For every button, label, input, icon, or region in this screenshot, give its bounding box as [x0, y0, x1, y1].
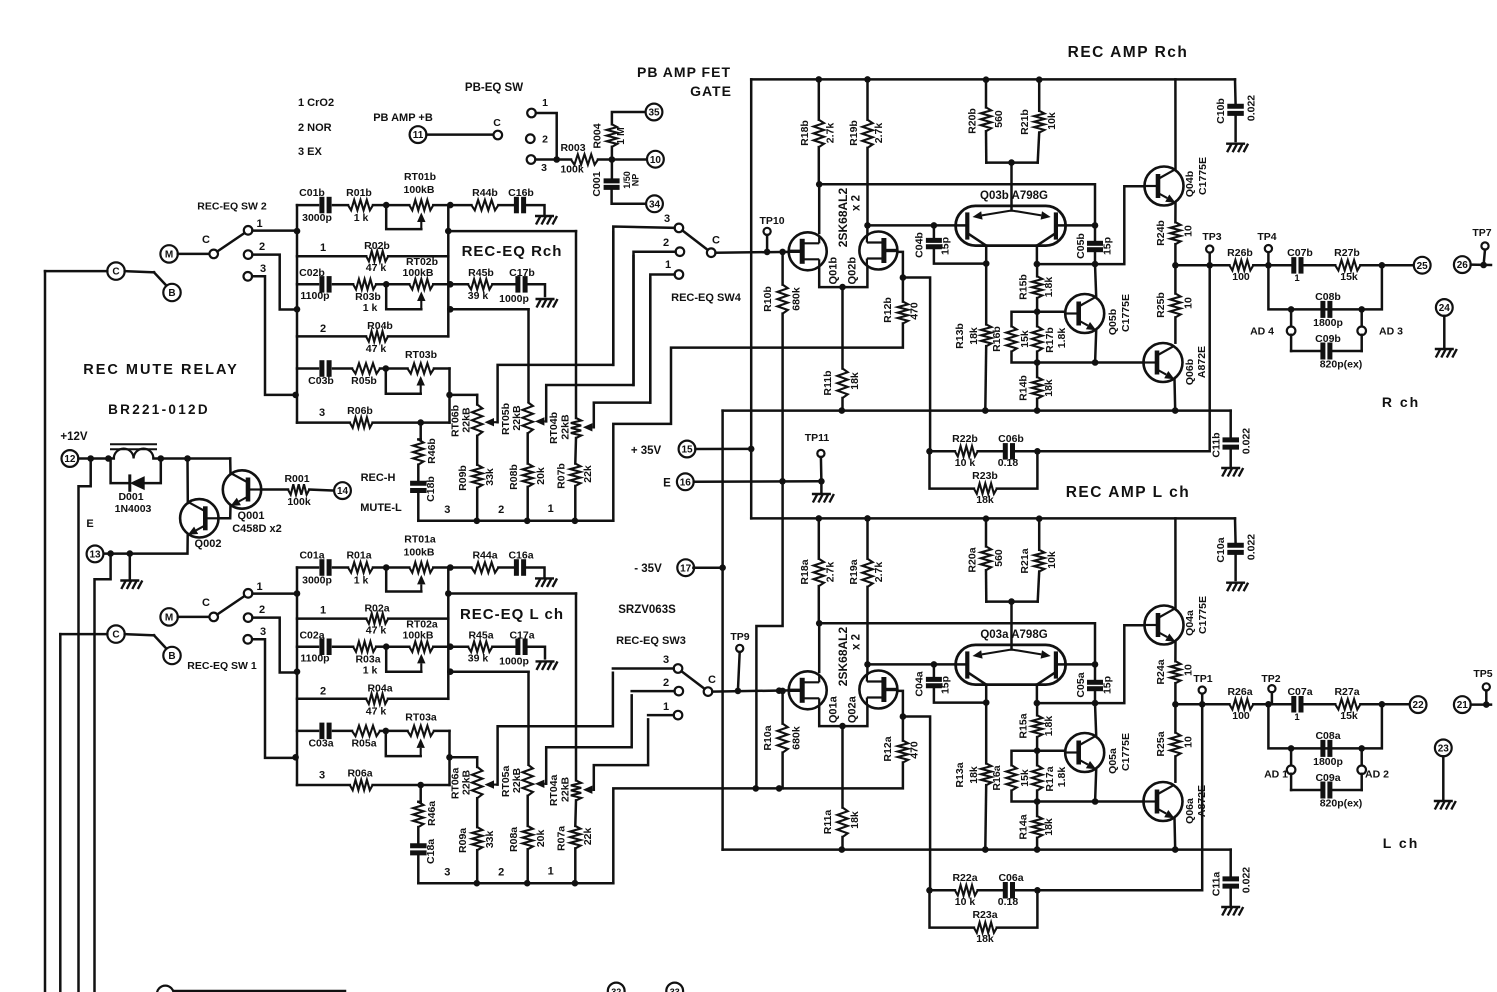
terminal M — [160, 608, 177, 625]
resistor R44b — [450, 204, 471, 207]
resistor R05a — [352, 726, 380, 736]
terminal 12 — [62, 450, 79, 467]
wire — [1268, 704, 1382, 748]
svg-text:R21b: R21b — [1019, 109, 1031, 135]
wire — [818, 184, 821, 233]
capacitor C04a — [931, 661, 938, 668]
terminal AD — [1360, 748, 1363, 765]
resistor R46a — [419, 785, 422, 802]
wire — [60, 633, 107, 636]
svg-text:R001: R001 — [284, 473, 309, 485]
svg-text:2: 2 — [320, 685, 326, 697]
svg-text:RT04a: RT04a — [548, 774, 560, 806]
resistor R10a — [779, 688, 786, 695]
wire — [447, 647, 450, 699]
svg-text:11: 11 — [413, 130, 424, 141]
resistor R05b — [352, 363, 380, 373]
terminal 33 — [666, 983, 683, 992]
trimmer RT02b — [386, 283, 409, 286]
wire contact3 — [252, 639, 296, 758]
svg-text:18k: 18k — [968, 766, 980, 784]
wire — [818, 623, 821, 672]
svg-text:470: 470 — [909, 741, 921, 759]
wire -35V bus — [723, 848, 1231, 851]
trimmer RT06b — [476, 395, 479, 405]
svg-text:C06b: C06b — [998, 433, 1024, 445]
wire contact2 — [252, 618, 295, 673]
capacitor C18a — [417, 827, 420, 844]
svg-text:100: 100 — [1232, 710, 1250, 722]
svg-text:R44b: R44b — [472, 187, 498, 199]
resistor R08a — [526, 796, 529, 826]
terminal C — [107, 262, 124, 279]
svg-text:1: 1 — [1294, 273, 1300, 284]
capacitor C11b — [1229, 411, 1232, 439]
wire Q002 collector — [186, 459, 189, 504]
svg-text:15p: 15p — [940, 676, 952, 694]
svg-text:1: 1 — [256, 581, 262, 593]
svg-text:47 k: 47 k — [366, 262, 387, 274]
svg-text:Q05a: Q05a — [1107, 748, 1119, 774]
contact 3 — [244, 272, 253, 281]
svg-text:R18a: R18a — [799, 559, 811, 584]
wire -35V bus — [723, 409, 1231, 412]
svg-text:10 k: 10 k — [955, 457, 976, 469]
resistor R01b — [348, 200, 373, 210]
wire — [448, 731, 451, 785]
svg-text:NP: NP — [631, 174, 641, 187]
wire sources — [819, 705, 867, 726]
ground — [1436, 349, 1441, 358]
node — [294, 306, 301, 313]
svg-text:PB AMP FET: PB AMP FET — [637, 64, 731, 80]
svg-text:26: 26 — [1457, 260, 1469, 271]
wire contact3 — [252, 276, 296, 395]
svg-text:3: 3 — [541, 162, 547, 174]
svg-text:17: 17 — [680, 563, 692, 574]
svg-text:C03a: C03a — [308, 737, 333, 749]
switch lever — [217, 596, 245, 615]
resistor R25a — [1174, 704, 1177, 732]
wire SW3-1 — [648, 714, 674, 717]
svg-text:GATE: GATE — [690, 83, 732, 99]
switch PB-EQ SW contact 3 — [527, 155, 536, 164]
svg-text:2: 2 — [320, 323, 326, 335]
svg-text:Q001: Q001 — [238, 510, 265, 522]
svg-text:1N4003: 1N4003 — [115, 503, 152, 515]
svg-text:1 k: 1 k — [363, 664, 378, 676]
svg-text:R20b: R20b — [967, 108, 979, 134]
svg-text:33k: 33k — [484, 830, 496, 848]
svg-text:18k: 18k — [976, 933, 994, 945]
svg-text:18k: 18k — [976, 494, 994, 506]
wire SW4-1 — [650, 275, 674, 403]
node — [383, 564, 390, 571]
svg-text:12: 12 — [64, 454, 76, 465]
svg-text:1: 1 — [548, 865, 554, 877]
svg-text:R02a: R02a — [364, 602, 389, 614]
capacitor C03a — [297, 730, 318, 733]
wire EQ bus to feedback line — [613, 763, 903, 884]
switch pivot C — [209, 613, 218, 622]
svg-text:10: 10 — [1183, 736, 1195, 748]
svg-text:C04a: C04a — [914, 671, 926, 696]
svg-text:20k: 20k — [535, 467, 547, 485]
resistor R18b — [818, 79, 821, 119]
svg-text:2SK68AL2: 2SK68AL2 — [836, 188, 850, 248]
switch pivot C — [707, 248, 716, 257]
node — [383, 643, 390, 650]
svg-text:Q002: Q002 — [195, 538, 222, 550]
svg-text:1.8k: 1.8k — [1056, 767, 1068, 788]
svg-text:3: 3 — [444, 866, 450, 878]
svg-text:R23a: R23a — [972, 909, 997, 921]
node — [383, 202, 390, 209]
ground — [1227, 583, 1232, 592]
svg-text:1.8k: 1.8k — [1043, 277, 1055, 298]
wire -35V rail — [721, 411, 724, 850]
svg-text:10: 10 — [1183, 297, 1195, 309]
node — [553, 156, 560, 163]
svg-text:B: B — [168, 651, 175, 662]
transistor Q01b 2SK68AL2 — [789, 232, 827, 270]
svg-text:15p: 15p — [1102, 237, 1114, 255]
capacitor C09a — [1291, 789, 1320, 792]
wire Q02 drain — [866, 664, 869, 674]
wire +35V top bus — [751, 78, 1235, 81]
switch lever — [217, 233, 245, 252]
trimmer RT03b — [386, 367, 408, 370]
switch lever — [682, 671, 705, 689]
svg-text:100kB: 100kB — [403, 629, 434, 641]
wire — [296, 205, 299, 423]
transistor Q04b C1775E — [1145, 167, 1184, 206]
svg-text:3: 3 — [444, 504, 450, 516]
svg-text:PB-EQ SW: PB-EQ SW — [465, 82, 523, 94]
svg-text:15k: 15k — [1340, 271, 1358, 283]
svg-text:1 M: 1 M — [615, 127, 627, 145]
svg-text:x 2: x 2 — [851, 634, 863, 650]
svg-text:23: 23 — [1438, 744, 1450, 755]
svg-text:2: 2 — [498, 504, 504, 516]
contact 2 — [244, 250, 253, 259]
contact 1 — [244, 589, 253, 598]
svg-text:22kB: 22kB — [560, 776, 572, 802]
svg-text:L ch: L ch — [1383, 835, 1420, 851]
svg-text:47 k: 47 k — [366, 624, 387, 636]
capacitor C01b — [297, 204, 318, 207]
wire — [536, 113, 557, 160]
capacitor C10b — [1234, 79, 1237, 104]
wire SW4-C to gate — [716, 251, 790, 254]
wire — [418, 520, 613, 523]
svg-text:18k: 18k — [849, 372, 861, 390]
wire right collector to Q04 base — [1036, 246, 1039, 265]
svg-text:0.18: 0.18 — [998, 457, 1019, 469]
terminal B — [163, 647, 180, 664]
wire output — [1175, 703, 1229, 706]
svg-text:R10b: R10b — [762, 286, 774, 312]
capacitor C02a — [297, 645, 318, 648]
wire Q02 gate — [897, 691, 903, 717]
svg-text:R15b: R15b — [1018, 274, 1030, 300]
terminal AD — [1290, 748, 1293, 765]
capacitor C06a — [1034, 887, 1041, 894]
svg-text:R19a: R19a — [848, 559, 860, 584]
svg-text:C: C — [712, 235, 720, 247]
svg-text:R05b: R05b — [351, 375, 377, 387]
node — [294, 228, 301, 235]
contact 3 — [674, 664, 683, 673]
resistor R04b — [297, 335, 366, 338]
svg-text:680k: 680k — [791, 287, 803, 311]
node — [447, 281, 454, 288]
svg-text:C458D x2: C458D x2 — [232, 523, 282, 535]
svg-text:39 k: 39 k — [468, 652, 489, 664]
svg-text:10: 10 — [1183, 225, 1195, 237]
terminal M bottom — [157, 986, 174, 992]
capacitor C04b — [931, 222, 938, 229]
wire — [178, 253, 210, 256]
svg-text:C04b: C04b — [914, 232, 926, 258]
wire SW3-C to gate — [712, 690, 789, 691]
node — [292, 392, 299, 399]
svg-text:100k: 100k — [560, 164, 584, 176]
wire SW4-3 — [613, 227, 674, 365]
wire — [448, 369, 451, 423]
svg-text:1 k: 1 k — [363, 302, 378, 314]
svg-text:C10b: C10b — [1215, 98, 1227, 124]
svg-text:22k: 22k — [582, 827, 594, 845]
wire SW3-2 — [632, 690, 675, 693]
terminal M — [160, 245, 177, 262]
svg-text:C10a: C10a — [1215, 537, 1227, 562]
svg-text:33: 33 — [670, 987, 680, 992]
node — [447, 202, 454, 209]
node — [572, 518, 579, 525]
svg-text:15p: 15p — [1102, 676, 1114, 694]
wire SW3-3 — [613, 667, 674, 670]
svg-text:M: M — [165, 250, 173, 261]
svg-text:REC AMP Rch: REC AMP Rch — [1068, 44, 1189, 61]
wire contact1 — [252, 229, 297, 232]
svg-text:R05a: R05a — [351, 737, 376, 749]
switch pivot C — [704, 687, 713, 696]
svg-text:0.022: 0.022 — [1246, 95, 1258, 121]
svg-text:1000p: 1000p — [499, 655, 529, 667]
trimmer RT04b — [575, 231, 578, 418]
wire Q001 emitter to Q002 base — [219, 506, 231, 519]
capacitor C07a — [1268, 703, 1291, 706]
svg-text:1: 1 — [256, 218, 262, 230]
wire — [447, 284, 450, 336]
resistor R23a — [930, 890, 974, 927]
svg-text:Q02b: Q02b — [847, 257, 859, 285]
svg-text:C: C — [112, 630, 119, 641]
svg-text:REC-EQ SW 2: REC-EQ SW 2 — [197, 201, 267, 213]
svg-text:Q01a: Q01a — [828, 695, 840, 723]
svg-text:470: 470 — [909, 302, 921, 320]
svg-text:R004: R004 — [592, 123, 604, 148]
svg-text:C02a: C02a — [299, 629, 324, 641]
wire right base — [1066, 663, 1095, 666]
wire bottom edge — [174, 990, 345, 992]
resistor R13b — [983, 260, 990, 267]
svg-text:R19b: R19b — [848, 120, 860, 146]
svg-text:10k: 10k — [1046, 112, 1058, 130]
svg-text:R17a: R17a — [1044, 766, 1056, 791]
svg-text:R06a: R06a — [347, 767, 372, 779]
wire RT06a wiper to SW3-3 — [494, 784, 498, 786]
node — [474, 518, 481, 525]
svg-text:3: 3 — [319, 769, 325, 781]
wire RT05b wiper to SW4-2 — [544, 420, 546, 422]
wire output — [1175, 264, 1229, 267]
svg-text:x 2: x 2 — [851, 195, 863, 211]
svg-text:3: 3 — [319, 407, 325, 419]
ground — [537, 661, 542, 670]
svg-text:R04a: R04a — [367, 682, 392, 694]
capacitor C17a — [492, 645, 514, 648]
svg-text:2: 2 — [498, 866, 504, 878]
svg-text:C1775E: C1775E — [1120, 733, 1132, 771]
svg-text:R21a: R21a — [1019, 548, 1031, 573]
svg-text:M: M — [165, 613, 173, 624]
svg-text:C16a: C16a — [508, 549, 533, 561]
svg-text:R18b: R18b — [799, 120, 811, 146]
svg-text:22kB: 22kB — [511, 405, 523, 431]
resistor R16b — [1012, 312, 1038, 327]
svg-text:TP3: TP3 — [1202, 231, 1221, 243]
svg-text:18k: 18k — [1043, 818, 1055, 836]
wire R10a to EQ feed line — [781, 753, 784, 789]
svg-text:R08b: R08b — [508, 464, 520, 490]
svg-text:R16b: R16b — [991, 326, 1003, 352]
svg-text:AD 3: AD 3 — [1379, 326, 1403, 338]
resistor R12b — [902, 278, 905, 302]
node — [864, 661, 871, 668]
svg-text:R11b: R11b — [822, 370, 834, 395]
resistor R25b — [1174, 265, 1177, 293]
trimmer RT04a — [575, 594, 578, 781]
wire — [153, 457, 187, 460]
contact 1 — [674, 711, 683, 720]
svg-text:Q02a: Q02a — [847, 695, 859, 723]
svg-text:C: C — [202, 597, 210, 609]
svg-text:REC-EQ SW 1: REC-EQ SW 1 — [187, 660, 257, 672]
svg-text:1.8k: 1.8k — [1043, 716, 1055, 737]
svg-text:24: 24 — [1439, 303, 1451, 314]
terminal 34 — [646, 195, 663, 212]
svg-text:C02b: C02b — [299, 267, 325, 279]
node — [816, 620, 823, 627]
wire — [1037, 361, 1143, 364]
svg-text:2.7k: 2.7k — [825, 562, 837, 583]
node — [474, 880, 481, 887]
svg-text:C01b: C01b — [299, 187, 325, 199]
svg-text:100kB: 100kB — [404, 184, 435, 196]
svg-text:TP11: TP11 — [805, 432, 830, 444]
capacitor C05b — [1092, 222, 1099, 229]
wire +35V top bus — [751, 517, 1235, 520]
capacitor C03b — [297, 367, 318, 370]
svg-text:TP5: TP5 — [1473, 668, 1492, 680]
wire — [819, 623, 1095, 664]
svg-text:C18b: C18b — [425, 476, 437, 502]
wire RT06b wiper to SW4-3 — [494, 421, 498, 423]
svg-text:REC MUTE RELAY: REC MUTE RELAY — [83, 362, 239, 378]
wire Q02 drain — [866, 225, 869, 235]
svg-text:2: 2 — [663, 237, 669, 249]
ground — [537, 299, 542, 308]
svg-text:R14a: R14a — [1018, 814, 1030, 839]
capacitor C18b — [417, 465, 420, 482]
terminal 26 — [1454, 256, 1471, 273]
svg-text:18k: 18k — [968, 327, 980, 345]
svg-text:2: 2 — [259, 241, 265, 253]
resistor R09a — [476, 798, 479, 827]
resistor R11a — [841, 726, 844, 807]
trimmer RT06a — [476, 757, 479, 767]
resistor R19a — [866, 518, 869, 558]
wire right collector to Q04 base — [1036, 685, 1039, 704]
resistor R15b — [1036, 264, 1039, 276]
node — [1265, 262, 1272, 269]
wire Q001 collector — [229, 459, 232, 475]
svg-text:3000p: 3000p — [302, 574, 332, 586]
svg-text:C: C — [112, 267, 119, 278]
svg-text:R44a: R44a — [472, 549, 497, 561]
svg-text:+ 35V: + 35V — [631, 445, 662, 457]
node — [294, 668, 301, 675]
svg-text:Q01b: Q01b — [828, 257, 840, 285]
node — [864, 222, 871, 229]
svg-text:1800p: 1800p — [1313, 756, 1343, 768]
svg-text:13: 13 — [89, 550, 101, 561]
svg-text:34: 34 — [649, 199, 661, 210]
svg-text:33k: 33k — [484, 468, 496, 486]
svg-text:22kB: 22kB — [461, 407, 473, 433]
svg-text:C17a: C17a — [509, 629, 534, 641]
contact 2 — [675, 687, 684, 696]
svg-text:TP2: TP2 — [1261, 673, 1280, 685]
svg-text:REC-EQ L ch: REC-EQ L ch — [460, 606, 564, 623]
resistor R24b — [1170, 222, 1180, 244]
svg-text:22k: 22k — [582, 465, 594, 483]
svg-text:TP1: TP1 — [1193, 673, 1212, 685]
svg-text:22kB: 22kB — [560, 414, 572, 440]
resistor R26a — [1229, 699, 1253, 709]
terminal 13 — [87, 546, 104, 563]
svg-text:22: 22 — [1413, 700, 1425, 711]
contact 2 — [676, 247, 685, 256]
trimmer RT01a — [386, 566, 409, 569]
svg-text:R12a: R12a — [882, 736, 894, 761]
terminal AD — [1360, 309, 1363, 326]
svg-text:15k: 15k — [1340, 710, 1358, 722]
svg-text:R20a: R20a — [967, 547, 979, 572]
svg-text:3 EX: 3 EX — [298, 146, 323, 158]
switch PB-EQ SW contact 2 — [526, 134, 535, 143]
svg-text:R12b: R12b — [882, 297, 894, 323]
wire Q02 gate — [897, 252, 903, 278]
svg-text:TP7: TP7 — [1472, 227, 1491, 239]
resistor R24a — [1170, 661, 1180, 683]
switch lever — [125, 271, 154, 272]
svg-text:18k: 18k — [1043, 379, 1055, 397]
transistor Q06a A872E — [1144, 782, 1183, 821]
resistor R21a — [1038, 519, 1041, 550]
